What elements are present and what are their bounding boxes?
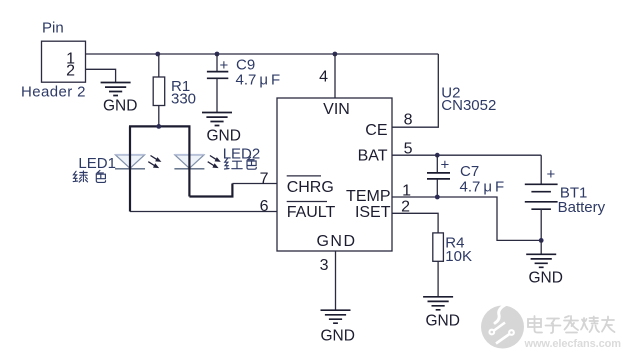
svg-text:www.elecfans.com: www.elecfans.com (524, 338, 622, 350)
wire pin 8 CE from top rail (392, 54, 438, 127)
svg-text:GND: GND (529, 270, 563, 287)
svg-text:FAULT: FAULT (287, 204, 336, 221)
wire pin 4 VIN drop (334, 54, 336, 98)
svg-text:GND: GND (316, 233, 356, 250)
svg-text:GND: GND (207, 128, 241, 145)
svg-text:CN3052: CN3052 (441, 97, 496, 114)
wire pin 3 to ground (335, 251, 337, 310)
ground GND (battery) (526, 254, 563, 286)
node junction top rail / VIN (333, 52, 338, 57)
svg-text:GND: GND (426, 313, 460, 330)
svg-text:4: 4 (319, 69, 328, 86)
svg-text:Pin: Pin (42, 20, 64, 37)
resistor R1 330 (153, 54, 196, 125)
svg-text:8: 8 (404, 112, 413, 129)
wire battery negative to ground (540, 240, 542, 254)
wire top rail from header pin 1 to CE drop (86, 53, 439, 55)
wire header pin 2 to ground (86, 69, 116, 82)
wire LED anode rail (129, 125, 191, 127)
svg-text:3: 3 (320, 257, 329, 274)
LED LED1 green (78, 126, 161, 211)
label red color CJK for LED2 (225, 157, 257, 169)
ground GND (C9) (202, 113, 241, 145)
watermark logo elecfans (481, 303, 524, 349)
node junction battery negative / TEMP net (539, 238, 544, 243)
svg-text:4.7 μ F: 4.7 μ F (460, 179, 505, 196)
svg-text:CE: CE (365, 122, 387, 139)
node junction R1 / LED rail (156, 124, 161, 129)
op-amp U2 CN3052 IC body (277, 98, 392, 251)
svg-text:VIN: VIN (323, 101, 350, 118)
wire pin 2 ISET to R4 (392, 213, 438, 233)
svg-text:Battery: Battery (558, 199, 606, 216)
svg-text:2: 2 (401, 199, 410, 216)
svg-text:GND: GND (321, 328, 355, 345)
svg-text:BAT: BAT (358, 148, 388, 165)
label U2 CN3052 (441, 85, 496, 115)
svg-text:6: 6 (260, 198, 269, 215)
ground GND (header) (101, 83, 138, 115)
svg-text:CHRG: CHRG (287, 179, 334, 196)
capacitor C9 4.7uF (207, 54, 280, 113)
svg-text:4.7 μ F: 4.7 μ F (236, 72, 281, 89)
svg-text:+: + (441, 157, 450, 174)
svg-text:+: + (220, 57, 229, 74)
svg-text:7: 7 (260, 170, 269, 187)
node junction TEMP / C7 (435, 195, 440, 200)
wire pin 1 TEMP to battery negative (392, 197, 541, 240)
svg-text:ISET: ISET (355, 204, 391, 221)
svg-text:LED1: LED1 (78, 155, 116, 172)
capacitor C7 4.7uF (427, 155, 504, 197)
svg-text:10K: 10K (445, 248, 472, 265)
svg-text:330: 330 (171, 91, 196, 108)
ground GND (pin 3) (321, 310, 355, 344)
svg-text:2: 2 (66, 63, 75, 80)
battery BT1 (525, 155, 606, 240)
svg-text:GND: GND (103, 98, 137, 115)
label green color CJK for LED1 (73, 170, 105, 182)
wire LED1 cathode to pin 6 FAULT (130, 211, 277, 213)
node junction top rail / C9 (215, 52, 220, 57)
resistor R4 10K (433, 233, 472, 297)
svg-text:+: + (547, 166, 556, 183)
svg-text:TEMP: TEMP (346, 188, 390, 205)
svg-text:C7: C7 (460, 163, 479, 180)
ground GND (R4) (423, 297, 460, 330)
wire LED2 cathode to pin 7 CHRG (189, 184, 232, 197)
wire pin 5 BAT to battery (392, 154, 541, 156)
svg-text:Header 2: Header 2 (21, 84, 86, 101)
connector J1 Header 2 (21, 20, 86, 101)
LED LED2 red (174, 126, 260, 196)
svg-text:1: 1 (402, 183, 411, 200)
node junction BAT / C7 (435, 153, 440, 158)
svg-text:5: 5 (404, 141, 413, 158)
watermark text dianzi fashaoyou CJK (528, 316, 615, 333)
node junction top rail / R1 (155, 52, 160, 57)
